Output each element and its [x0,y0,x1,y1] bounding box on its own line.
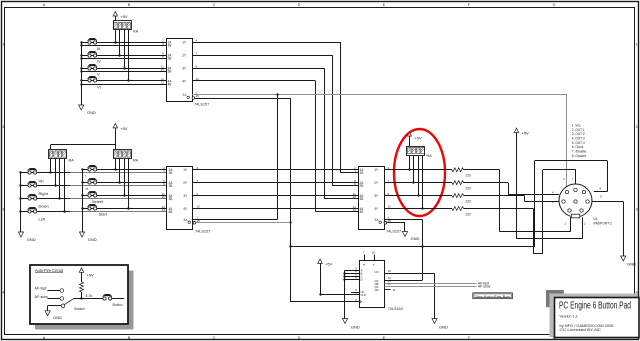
svg-text:AF-fast: AF-fast [35,287,47,291]
svg-text:1B: 1B [169,171,173,175]
svg-text:2B: 2B [168,57,172,61]
svg-text:D: D [298,3,301,7]
svg-text:220: 220 [466,199,472,203]
svg-text:See Auto-Fire Box: See Auto-Fire Box [475,295,511,299]
svg-text:Select: Select [92,199,104,204]
svg-text:IV: IV [97,59,101,64]
svg-text:4B: 4B [169,210,173,214]
svg-text:12: 12 [196,77,200,81]
svg-text:RA: RA [69,159,75,163]
svg-text:3: 3 [2,208,4,212]
svg-text:74LS157: 74LS157 [195,230,210,234]
svg-text:13: 13 [352,208,356,212]
svg-text:Version 1.2: Version 1.2 [560,315,578,319]
svg-text:C: C [213,336,216,340]
svg-text:RA: RA [133,159,139,163]
svg-text:GND: GND [87,110,96,115]
svg-text:VI: VI [97,85,101,90]
svg-text:G: G [553,336,556,340]
svg-text:QD: QD [375,288,379,292]
svg-text:4B: 4B [360,210,364,214]
svg-text:2: 2 [2,125,4,129]
svg-text:Left: Left [39,217,47,222]
svg-text:13: 13 [161,208,165,212]
svg-text:10: 10 [372,251,376,255]
svg-text:GND: GND [439,325,448,330]
svg-text:4B: 4B [168,82,172,86]
svg-text:GND: GND [88,237,97,242]
svg-text:10: 10 [161,195,165,199]
svg-text:X̅A: X̅A [183,218,187,222]
svg-text:3B: 3B [360,197,364,201]
svg-text:Start: Start [99,212,108,217]
svg-text:220: 220 [466,174,472,178]
svg-text:15: 15 [197,219,201,223]
svg-text:GND: GND [27,237,36,242]
svg-text:8. Ground: 8. Ground [572,154,586,158]
svg-text:Switch: Switch [74,307,85,311]
svg-text:Right: Right [39,191,49,196]
svg-text:1: 1 [636,43,638,47]
svg-text:3B: 3B [169,197,173,201]
svg-text:11: 11 [393,288,396,292]
svg-text:GND: GND [411,236,420,241]
svg-text:+5V: +5V [325,262,333,267]
svg-text:1B: 1B [360,171,364,175]
svg-text:10: 10 [352,195,356,199]
svg-text:Up: Up [39,178,45,183]
svg-text:2B: 2B [360,184,364,188]
svg-text:GND: GND [351,325,360,330]
svg-text:GND: GND [53,315,62,320]
svg-text:Button: Button [113,303,123,307]
svg-text:I: I [85,173,86,178]
svg-text:4: 4 [2,290,4,294]
svg-text:4.7k: 4.7k [86,294,93,298]
svg-text:12: 12 [388,282,392,286]
svg-text:2B: 2B [169,184,173,188]
svg-text:CC Licensed BY-NC: CC Licensed BY-NC [560,328,602,332]
svg-text:15: 15 [196,94,200,98]
svg-text:220: 220 [466,212,472,216]
svg-text:Auto-Fire Circuit: Auto-Fire Circuit [35,268,64,273]
svg-text:10: 10 [160,68,164,72]
svg-text:X̅A: X̅A [374,218,378,222]
svg-text:D: D [298,336,301,340]
svg-text:II: II [86,186,88,191]
svg-text:220: 220 [466,187,472,191]
svg-text:AF-slow: AF-slow [478,284,491,288]
svg-text:CLR: CLR [361,293,366,297]
svg-text:RA: RA [133,30,139,34]
svg-text:PADPORT-2: PADPORT-2 [594,221,613,225]
svg-text:3B: 3B [168,70,172,74]
svg-text:1B: 1B [168,44,172,48]
svg-text:74LS163: 74LS163 [388,307,403,311]
svg-text:+5V: +5V [120,14,128,19]
svg-text:+5V: +5V [522,131,530,136]
svg-text:V: V [97,72,100,77]
svg-text:P: P [363,263,365,267]
svg-text:13: 13 [160,81,164,85]
svg-text:Down: Down [39,204,49,209]
svg-text:C: C [213,3,216,7]
svg-text:1: 1 [2,43,4,47]
svg-text:T: T [373,263,375,267]
svg-text:X̅A: X̅A [182,93,186,97]
svg-text:III: III [97,46,100,51]
svg-text:GND: GND [627,262,636,267]
svg-text:74LS157: 74LS157 [386,230,401,234]
svg-text:12: 12 [388,205,392,209]
svg-text:PC Engine 6 Button Pad: PC Engine 6 Button Pad [559,301,631,312]
svg-text:G: G [553,3,556,7]
svg-text:+5V: +5V [87,272,95,277]
svg-text:+5V: +5V [414,135,422,140]
svg-text:74LS157: 74LS157 [194,103,209,107]
svg-text:15: 15 [388,219,392,223]
svg-text:AF-slow: AF-slow [35,295,49,299]
svg-text:15: 15 [388,269,392,273]
svg-text:2: 2 [636,125,638,129]
svg-text:3: 3 [636,208,638,212]
svg-text:RA: RA [427,154,433,158]
svg-text:12: 12 [197,205,201,209]
svg-text:4: 4 [636,290,638,294]
svg-text:+5V: +5V [120,126,128,131]
